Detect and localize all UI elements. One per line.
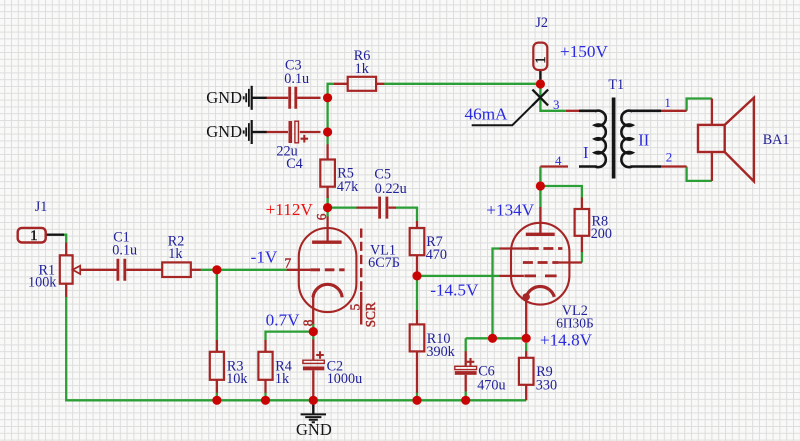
wire speaker bottom pin [711, 152, 713, 181]
BLACK SYMBOLS [244, 86, 661, 422]
svg-text:200: 200 [591, 226, 612, 242]
node +112V junction [323, 203, 332, 212]
resistor R5 47k [320, 160, 335, 187]
resistor R2 1k [162, 262, 191, 277]
wire R5 bottom green segment [326, 196, 328, 204]
wire VL2 anode node to R8 top [540, 186, 582, 198]
svg-text:1: 1 [533, 56, 549, 63]
svg-text:330: 330 [536, 377, 557, 393]
wire transformer pin3 stub [566, 110, 580, 112]
svg-text:47k: 47k [337, 179, 359, 195]
wire C6 top lead upper part [465, 338, 467, 351]
wire GND bottom stub [312, 400, 314, 413]
wire VL1 cathode green segments [312, 324, 314, 341]
svg-text:GND: GND [206, 88, 242, 107]
capacitor C6 470u negative plate (filled) [455, 371, 477, 375]
potentiometer R1 wiper arrow [73, 266, 81, 274]
COMPONENT LEADS (dark red) [66, 84, 712, 401]
wire transformer pin4 stub [540, 165, 568, 167]
svg-text:1000u: 1000u [327, 371, 362, 387]
wire +14.8V row horizontal [466, 337, 527, 339]
ground port GND1 symbol bars [251, 86, 253, 110]
svg-text:1: 1 [30, 228, 38, 244]
wire R5 leads [326, 144, 328, 198]
svg-text:6С7Б: 6С7Б [368, 255, 400, 271]
wire R8 leads [581, 198, 583, 253]
wire R10 leads [416, 310, 418, 393]
wire R6 to J2 node [384, 83, 541, 85]
wire speaker bottom loop [687, 167, 712, 181]
svg-text:0.1u: 0.1u [284, 71, 309, 87]
wire R4 leads [264, 340, 266, 393]
capacitor C2 plus sign [316, 351, 324, 359]
wire VL2 cathode lead [525, 297, 527, 335]
wire R8 bottom to VL2 screen grid [581, 252, 583, 263]
wire R7 leads [416, 221, 418, 276]
svg-text:470u: 470u [477, 377, 505, 393]
capacitor C6 plus sign [467, 358, 475, 366]
wire C2 top lead [312, 340, 314, 361]
wire J2 lead [539, 70, 541, 82]
wire C4 leads [266, 131, 320, 133]
wire VL2 grid1 lead [500, 275, 524, 277]
svg-text:1: 1 [664, 95, 671, 110]
capacitor C4 22u negative plate (filled) [289, 121, 293, 143]
ammeter X mark at J2 node [532, 90, 548, 106]
node VL2 anode junction [536, 181, 545, 190]
speaker BA1 horn [725, 98, 754, 182]
wire VL2 grid3 lead [500, 247, 529, 249]
wire R2 to -1V node to VL1 grid pin7 [200, 269, 286, 271]
svg-text:-1V: -1V [251, 248, 278, 267]
svg-text:SCR: SCR [363, 302, 378, 327]
tube VL1 cathode arc [313, 284, 342, 297]
wire C6 bottom stub [465, 391, 467, 400]
tube VL2 envelope [511, 223, 569, 305]
wire transformer pin1 stub [661, 110, 687, 112]
node -1V junction [212, 265, 221, 274]
svg-text:C4: C4 [286, 156, 303, 172]
node C4 junction [323, 127, 332, 136]
resistor R3 10k [210, 352, 224, 380]
tube VL1 envelope [299, 228, 357, 312]
svg-text:J2: J2 [535, 15, 548, 31]
svg-text:6П30Б: 6П30Б [556, 316, 593, 331]
wire +112V node to C5 [328, 198, 357, 218]
wire R1 wiper lead [80, 269, 117, 271]
wire transformer pin 4 to VL2 anode node [539, 167, 541, 187]
wire speaker top loop [687, 99, 712, 111]
svg-text:C5: C5 [374, 166, 391, 182]
wire R6 leads [334, 83, 384, 85]
wire VL2 grid2 lead [559, 261, 582, 263]
node rail R10 junction [412, 396, 421, 405]
svg-text:6: 6 [314, 213, 329, 220]
node rail R4 junction [261, 396, 270, 405]
wire R2 left lead joins C1 [191, 269, 201, 271]
svg-text:GND: GND [296, 420, 332, 439]
capacitor C3 0.1u plates [290, 87, 296, 109]
wire bottom ground rail [66, 297, 526, 401]
svg-text:46mA: 46mA [465, 105, 509, 124]
node rail C6 junction [461, 396, 470, 405]
wire VL1 cathode lead pin8 [312, 297, 314, 324]
node VL2 cathode +14.8V junction [522, 334, 531, 343]
tube VL1 anode bar [312, 240, 342, 243]
wire R4 top to 0.7V node [266, 332, 314, 341]
wire VL1 anode lead [326, 217, 328, 243]
transformer T1 primary winding I [579, 111, 606, 167]
wire VL2 anode lead [539, 207, 541, 234]
svg-text:BA1: BA1 [763, 132, 790, 148]
svg-text:7: 7 [285, 256, 292, 271]
wire C1 leads [126, 269, 162, 271]
node -14.5V junction [412, 271, 421, 280]
svg-text:8: 8 [300, 319, 315, 326]
capacitor C6 470u positive plate (hollow) [455, 366, 477, 369]
svg-text:+112V: +112V [266, 200, 314, 219]
wire VL1 grid lead pin7 [287, 269, 311, 271]
connector J1 body [18, 228, 46, 243]
svg-text:10k: 10k [226, 371, 248, 387]
node grid3 +14.8V junction [488, 334, 497, 343]
svg-text:470: 470 [426, 247, 447, 263]
tube VL2 grid3 (dashed) [529, 247, 563, 250]
wire R3 leads [216, 340, 218, 393]
speaker BA1 box [698, 125, 725, 152]
svg-text:+150V: +150V [560, 42, 608, 61]
tube VL2 cathode arc [526, 287, 554, 297]
wire J1 lead [46, 233, 64, 235]
tube VL2 cathode pin dot [523, 293, 530, 300]
svg-text:3: 3 [553, 97, 560, 112]
node rail R3 junction [212, 396, 221, 405]
svg-text:0.22u: 0.22u [375, 181, 407, 197]
svg-text:T1: T1 [608, 77, 624, 93]
resistor R9 330 [519, 358, 534, 385]
resistor R10 390k [410, 324, 425, 351]
wire R3 bottom stub [216, 392, 218, 400]
tube VL1 screen dashed line [360, 229, 362, 292]
transformer T1 core [612, 98, 616, 179]
ground port GND2 symbol bars [251, 120, 253, 144]
resistor R8 200 [575, 209, 590, 236]
svg-text:+134V: +134V [486, 200, 534, 219]
resistor R7 470 [410, 228, 425, 255]
capacitor C5 0.22u plates [380, 197, 387, 219]
svg-text:J1: J1 [35, 199, 48, 215]
svg-text:GND: GND [206, 122, 242, 141]
wire R4 bottom stub [264, 392, 266, 400]
svg-text:1k: 1k [355, 61, 370, 77]
wire VL2 grid3 down to +14.8V row [493, 249, 500, 339]
svg-text:1k: 1k [168, 246, 183, 262]
capacitor C4 plus sign [301, 135, 309, 143]
svg-text:2: 2 [666, 150, 673, 165]
wire transformer pin2 stub [661, 165, 687, 167]
svg-text:II: II [638, 130, 649, 149]
tube VL2 anode bar [526, 233, 555, 236]
wire VL2 anode lead green part [539, 186, 541, 208]
connector J2 body [533, 43, 547, 70]
node J2 +150V junction [536, 79, 545, 88]
wire GND port1 lead [252, 97, 267, 99]
svg-text:0.7V: 0.7V [266, 310, 300, 329]
svg-text:I: I [583, 143, 589, 162]
wire R9 bottom lead [525, 385, 527, 401]
wire speaker top pin [711, 99, 713, 125]
wire VL2 cathode node to R9 [525, 343, 527, 352]
node C3 junction [323, 93, 332, 102]
wire R9 top lead [525, 351, 527, 358]
tube VL1 screen solid line pin5 [360, 292, 362, 325]
svg-text:0.1u: 0.1u [112, 243, 137, 259]
wire GND port2 lead [252, 131, 267, 133]
wire C5 leads [357, 206, 397, 208]
svg-text:-14.5V: -14.5V [430, 280, 479, 299]
capacitor C1 0.1u plates [118, 259, 125, 281]
tube VL2 grid2 screen (dashed) [523, 261, 559, 264]
resistor R6 1k [348, 77, 376, 91]
wire R10 bottom stub [416, 392, 418, 400]
node 0.7V junction [309, 327, 318, 336]
ground symbol GND bottom [301, 414, 326, 422]
tube VL2 grid1 (dashed) [524, 274, 560, 277]
svg-text:390k: 390k [426, 344, 455, 360]
svg-text:100k: 100k [28, 275, 57, 291]
wire J2 node down to transformer pin 3 [540, 84, 565, 111]
wire C6 top lead lower part [465, 351, 467, 366]
capacitor C2 1000u positive plate (hollow) [303, 360, 324, 363]
wire R7 bottom node to VL2 grid1 [417, 275, 500, 277]
ammeter pointer line 46mA [472, 99, 539, 125]
wire C6 bottom lead [465, 375, 467, 392]
svg-text:+14.8V: +14.8V [540, 331, 593, 350]
wire R1 top/bottom leads [65, 243, 67, 297]
wire green bus C3/C4/R5 left column [328, 84, 335, 145]
wire C5 right to R7 top [396, 208, 418, 222]
capacitor C4 22u positive plate (hollow) [295, 121, 299, 143]
wire C3 leads [266, 97, 320, 99]
potentiometer R1 100k body [60, 255, 73, 283]
wire -1V node down to R3 [216, 270, 218, 341]
capacitor C2 1000u negative plate (filled) [303, 367, 324, 371]
wire C2 bottom lead [312, 370, 314, 400]
wire -14.5V node down to R10 [416, 276, 418, 311]
svg-text:4: 4 [555, 153, 562, 168]
svg-text:1k: 1k [275, 371, 290, 387]
svg-text:5: 5 [348, 304, 363, 311]
resistor R4 1k [258, 352, 272, 380]
tube VL1 grid (dashed) [310, 268, 344, 271]
node rail GND junction [309, 396, 318, 405]
BLACK LEADS [46, 70, 540, 414]
wire J1 to R1 top [64, 235, 67, 243]
transformer T1 secondary winding II [621, 111, 661, 167]
